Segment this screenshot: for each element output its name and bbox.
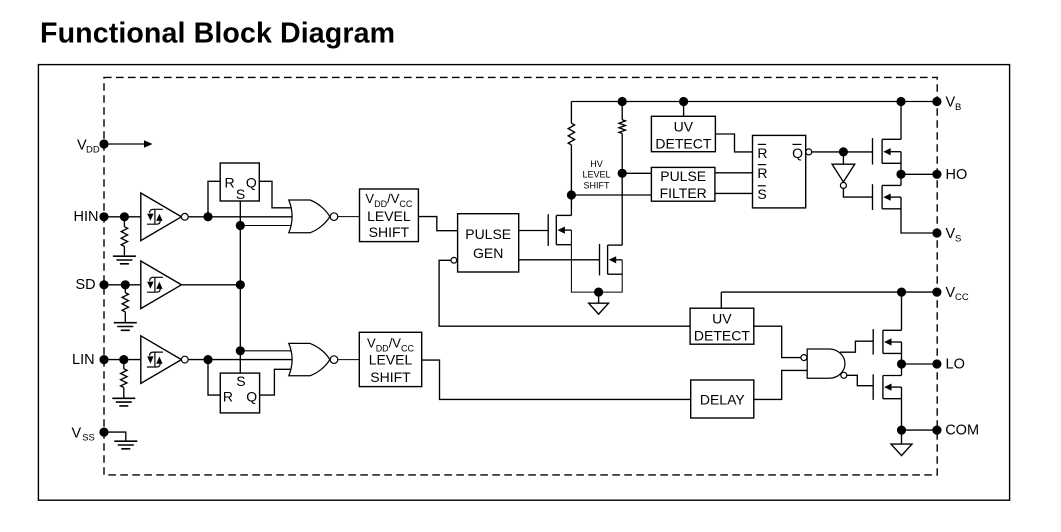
svg-text:LEVEL: LEVEL (369, 352, 413, 368)
svg-text:V: V (946, 285, 956, 301)
svg-text:SD: SD (76, 277, 96, 293)
svg-text:S: S (236, 186, 245, 202)
svg-text:SS: SS (82, 433, 95, 444)
svg-text:LEVEL: LEVEL (582, 170, 610, 180)
svg-text:V: V (72, 425, 82, 441)
svg-text:FILTER: FILTER (660, 185, 707, 201)
svg-text:GEN: GEN (473, 245, 503, 261)
svg-text:DD: DD (86, 145, 100, 156)
svg-text:S: S (955, 233, 961, 244)
svg-text:R: R (223, 388, 233, 404)
svg-text:DETECT: DETECT (655, 136, 711, 152)
svg-text:SHIFT: SHIFT (369, 224, 410, 240)
svg-text:R: R (757, 165, 767, 181)
svg-text:SHIFT: SHIFT (584, 181, 611, 191)
svg-text:LEVEL: LEVEL (367, 208, 411, 224)
svg-text:DELAY: DELAY (700, 391, 746, 407)
svg-text:LO: LO (946, 357, 965, 373)
svg-text:CC: CC (955, 292, 969, 303)
svg-text:S: S (757, 186, 766, 202)
svg-text:PULSE: PULSE (660, 168, 706, 184)
svg-text:SHIFT: SHIFT (370, 369, 411, 385)
svg-text:Q: Q (246, 175, 257, 191)
svg-text:LIN: LIN (72, 352, 95, 368)
svg-text:R: R (757, 145, 767, 161)
svg-text:HV: HV (590, 159, 603, 169)
svg-text:V: V (946, 95, 956, 111)
svg-text:S: S (236, 373, 245, 389)
svg-text:V: V (946, 226, 956, 242)
svg-text:Q: Q (246, 388, 257, 404)
svg-text:B: B (955, 102, 961, 113)
svg-text:UV: UV (674, 119, 694, 135)
svg-text:HIN: HIN (74, 209, 99, 225)
svg-text:HO: HO (946, 167, 968, 183)
svg-text:UV: UV (712, 310, 732, 326)
svg-text:Functional Block Diagram: Functional Block Diagram (40, 18, 395, 50)
svg-text:Q: Q (792, 145, 803, 161)
svg-text:DETECT: DETECT (694, 327, 750, 343)
svg-text:COM: COM (945, 423, 979, 439)
svg-text:R: R (224, 175, 234, 191)
svg-text:PULSE: PULSE (465, 226, 511, 242)
